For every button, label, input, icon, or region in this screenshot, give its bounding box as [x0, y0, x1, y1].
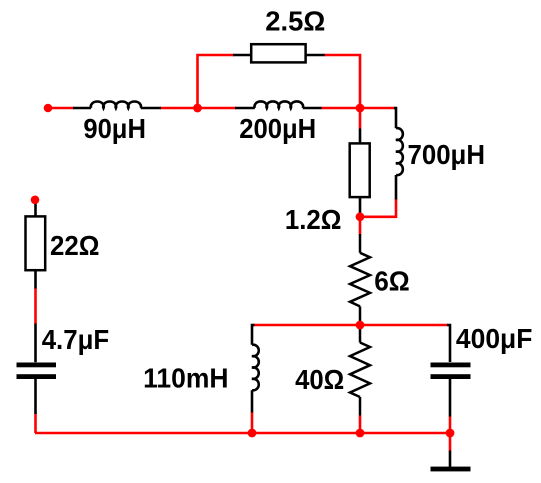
wire: 4.7uF bottom corner	[34, 414, 37, 434]
wire: 22ohm to 4.7uF	[34, 288, 37, 324]
svg-text:110mH: 110mH	[143, 363, 228, 394]
resistor 40ohm	[350, 325, 370, 416]
wire: 400uF bottom to node H	[449, 416, 452, 433]
svg-text:6Ω: 6Ω	[374, 266, 410, 297]
wire: bottom rail	[35, 432, 450, 435]
terminal: input left middle	[31, 196, 40, 205]
junction node D	[356, 212, 365, 221]
resistor 6ohm	[350, 234, 370, 325]
wire: node H down to ground	[449, 433, 452, 451]
junction node E	[356, 321, 365, 330]
svg-text:1.2Ω: 1.2Ω	[285, 204, 342, 235]
wire: 200uH to node C	[321, 107, 361, 110]
resistor 22ohm	[26, 203, 46, 289]
junction node G	[356, 429, 365, 438]
inductor 90uH	[73, 101, 161, 108]
svg-text:700μH: 700μH	[408, 139, 486, 170]
inductor 200uH	[235, 101, 322, 108]
svg-text:22Ω: 22Ω	[50, 230, 100, 261]
junction node B	[193, 104, 202, 113]
wire: node C down to 1.2ohm resistor	[359, 108, 362, 129]
inductor 110mH	[252, 325, 259, 413]
ground	[431, 451, 471, 472]
inductor 700uH	[394, 108, 403, 200]
terminal: input left top	[44, 104, 53, 113]
wire: node C to 700uH top corner	[360, 107, 395, 110]
svg-text:90μH: 90μH	[83, 113, 145, 144]
wire: 40ohm bottom lead to bottom rail	[359, 415, 362, 433]
svg-text:400μF: 400μF	[456, 323, 533, 354]
junction node H	[446, 429, 455, 438]
wire: middle rail node E	[253, 324, 448, 327]
wire: 90uH to node B and on to 200uH	[160, 107, 236, 110]
svg-text:200μH: 200μH	[239, 113, 316, 144]
svg-text:4.7μF: 4.7μF	[42, 324, 110, 355]
svg-text:40Ω: 40Ω	[295, 364, 344, 395]
wire: node D down to 6ohm resistor	[359, 217, 362, 235]
svg-text:2.5Ω: 2.5Ω	[265, 6, 325, 37]
wire: 110mH bottom to bottom rail	[251, 412, 254, 433]
resistor 2.5ohm	[233, 44, 325, 62]
resistor 1.2ohm	[350, 128, 370, 215]
junction node C	[356, 104, 365, 113]
wire: 2.5ohm resistor to node C	[324, 55, 360, 108]
capacitor 4.7uF	[17, 324, 57, 415]
capacitor 400uF	[431, 325, 471, 417]
wire: 700uH bottom to node D	[360, 199, 396, 217]
wire: node B up and across to 2.5ohm resistor	[198, 55, 235, 110]
wire: input terminal to 90uH	[48, 107, 74, 110]
junction node F	[248, 429, 257, 438]
